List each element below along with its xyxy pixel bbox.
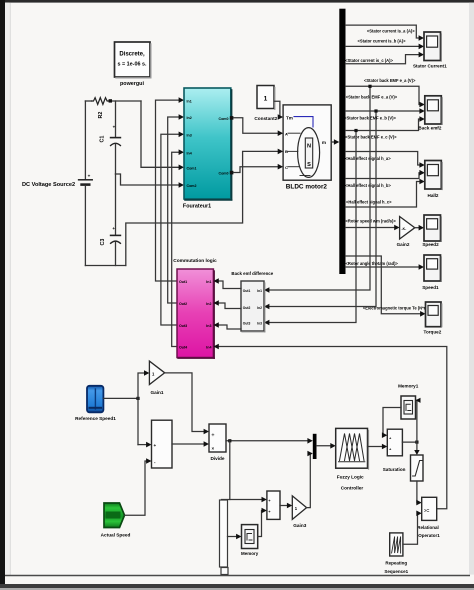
svg-text:Out4: Out4 xyxy=(179,346,187,350)
svg-text:C: C xyxy=(285,165,288,170)
svg-text:BLDC motor2: BLDC motor2 xyxy=(286,184,328,191)
wire gate4 commutation to inverter In4 xyxy=(172,152,180,346)
mux bar xyxy=(313,434,317,459)
wire emf e_b drop to difference block xyxy=(268,111,377,307)
sum subtract block xyxy=(152,420,173,468)
svg-text:>=: >= xyxy=(424,508,430,513)
wire stator back EMF e_b xyxy=(346,110,422,112)
svg-text:Discrete,: Discrete, xyxy=(119,52,145,58)
svg-text:In1: In1 xyxy=(187,99,192,103)
svg-text:In4: In4 xyxy=(187,151,192,155)
wire rotor speed wm xyxy=(346,227,397,229)
wire Memory1 to sum3 xyxy=(383,408,401,436)
wire hall h_a xyxy=(346,152,422,166)
svg-text:<Stator back EMF e_a (V)>: <Stator back EMF e_a (V)> xyxy=(364,78,416,83)
wire stator current is_b xyxy=(346,45,421,47)
svg-text:Gain1: Gain1 xyxy=(150,390,163,395)
back emf difference subsystem xyxy=(241,281,265,332)
wire ref branch xyxy=(138,373,146,445)
BLDC motor2 block xyxy=(283,105,331,180)
bus selector bar xyxy=(339,9,345,274)
svg-text:Com2: Com2 xyxy=(187,184,197,188)
wire hall h_c xyxy=(346,182,422,208)
svg-text:Reference Speed1: Reference Speed1 xyxy=(75,416,116,421)
wire gate3 commutation to inverter In3 xyxy=(161,134,180,325)
wire mux to fuzzy xyxy=(317,445,333,447)
wire divide branch down xyxy=(229,441,231,500)
scope Speed1 xyxy=(424,255,441,281)
wire ref to sum xyxy=(138,444,148,446)
commutation logic subsystem xyxy=(177,269,214,358)
svg-text:Speed1: Speed1 xyxy=(422,285,439,290)
svg-text:C1: C1 xyxy=(100,136,106,143)
wire motor m to bus xyxy=(331,141,335,143)
wire feedback up to Memory1 xyxy=(415,400,418,442)
svg-text:Memory1: Memory1 xyxy=(398,383,419,388)
svg-text:C3: C3 xyxy=(100,239,106,246)
svg-text:<Hall effect signal h_b>: <Hall effect signal h_b> xyxy=(345,183,391,188)
wire stator current is_a xyxy=(346,25,421,38)
svg-text:×: × xyxy=(212,446,215,451)
capacitor C3 branch xyxy=(100,174,120,266)
svg-text:In3: In3 xyxy=(187,134,192,138)
node junction xyxy=(109,99,112,102)
wire rail to node xyxy=(109,100,142,102)
svg-text:Operator1: Operator1 xyxy=(418,533,440,538)
svg-text:-K-: -K- xyxy=(402,227,407,231)
svg-text:Out1: Out1 xyxy=(179,280,187,284)
svg-text:Back emf difference: Back emf difference xyxy=(231,271,273,276)
svg-text:<Rotor speed wm (rad/s)>: <Rotor speed wm (rad/s)> xyxy=(346,219,397,224)
svg-text:Memory: Memory xyxy=(241,551,259,556)
svg-text:DC Voltage Source2: DC Voltage Source2 xyxy=(22,182,75,188)
svg-text:<Rotor angle thetam (rad)>: <Rotor angle thetam (rad)> xyxy=(346,261,399,266)
svg-text:Gain2: Gain2 xyxy=(397,242,410,247)
wire sum to Divide xyxy=(172,443,205,445)
wire Divide to mux xyxy=(226,440,309,442)
gain Gain1 xyxy=(149,361,164,384)
wire stator current is_c xyxy=(346,55,421,64)
svg-text:In3: In3 xyxy=(257,322,262,326)
wire emf e_a drop to difference block xyxy=(268,86,371,290)
wire sum3 out junction xyxy=(402,441,417,443)
powergui block xyxy=(115,42,151,78)
svg-text:N: N xyxy=(307,144,311,150)
svg-text:S: S xyxy=(307,162,311,168)
svg-text:Commutation logic: Commutation logic xyxy=(173,258,217,264)
DC Voltage Source2 xyxy=(79,101,93,266)
svg-text:+: + xyxy=(88,174,91,179)
scope Stator Current1 xyxy=(424,32,441,61)
scope Speed2 xyxy=(424,215,441,241)
wire DC+ down to Com port xyxy=(141,101,180,167)
svg-text:In2: In2 xyxy=(206,302,211,306)
svg-text:1: 1 xyxy=(264,96,268,103)
constant Constant2 xyxy=(257,86,275,110)
wire delay to Memory xyxy=(228,536,238,538)
svg-text:Controller: Controller xyxy=(341,485,364,490)
svg-text:Out3: Out3 xyxy=(243,322,251,326)
wire Reference Speed1 out xyxy=(103,397,138,399)
gain Gain3 xyxy=(292,496,306,520)
wire rotor angle thetam xyxy=(346,266,421,268)
svg-text:Com0: Com0 xyxy=(219,117,229,121)
wire inverter out A xyxy=(233,118,279,133)
wire junction down to saturation xyxy=(416,442,418,451)
svg-text:Out2: Out2 xyxy=(179,302,187,306)
wire repeating sequence to relational xyxy=(403,513,418,544)
svg-text:Fuzzy Logic: Fuzzy Logic xyxy=(337,475,364,480)
wire Actual Speed to sum xyxy=(125,461,148,515)
relational operator block xyxy=(422,497,437,520)
svg-text:m: m xyxy=(322,140,326,145)
saturation block xyxy=(411,455,424,481)
svg-text:powergui: powergui xyxy=(120,81,144,87)
wire neutral to motor B xyxy=(126,151,280,265)
svg-text:+: + xyxy=(154,443,157,448)
gain Gain2 xyxy=(400,217,415,240)
wire inverter out C xyxy=(233,167,279,173)
wire Constant2 to Tm xyxy=(274,101,281,117)
svg-text:<Hall effect signal h_c>: <Hall effect signal h_c> xyxy=(346,200,392,205)
wire Gain2 to Speed2 xyxy=(415,227,421,229)
scope Back emf2 xyxy=(425,96,442,125)
svg-text:Stator Current1: Stator Current1 xyxy=(413,64,447,69)
svg-text:Speed2: Speed2 xyxy=(422,242,439,247)
wire stator back EMF e_a xyxy=(346,86,422,104)
svg-text:Com0: Com0 xyxy=(219,172,229,176)
sum2 block xyxy=(267,491,280,519)
svg-text:<Stator current is_b (A)>: <Stator current is_b (A)> xyxy=(358,39,407,44)
delay tall block xyxy=(220,500,229,575)
svg-text:Tm: Tm xyxy=(286,115,293,120)
svg-text:Back emf2: Back emf2 xyxy=(418,125,441,130)
wire emf diff out2 to commutation in2 xyxy=(217,303,241,309)
svg-text:Saturation: Saturation xyxy=(383,467,406,472)
wire sum2 to Gain3 xyxy=(280,505,289,507)
wire PWM feedback to commutation in4 xyxy=(217,347,447,509)
inverter subsystem Fourateur1 xyxy=(184,88,233,200)
svg-text:Divide: Divide xyxy=(210,456,224,461)
svg-text:Hall2: Hall2 xyxy=(428,193,439,198)
svg-text:Out2: Out2 xyxy=(243,306,251,310)
source Reference Speed1 xyxy=(87,386,103,413)
svg-text:<Stator current is_a (A)>: <Stator current is_a (A)> xyxy=(367,29,415,34)
wire gate2 commutation to inverter In2 xyxy=(168,117,180,303)
svg-text:<Hall effect signal h_a>: <Hall effect signal h_a> xyxy=(345,156,391,161)
svg-text:Gain3: Gain3 xyxy=(293,523,306,528)
svg-text:In1: In1 xyxy=(206,280,211,284)
svg-text:Com1: Com1 xyxy=(187,167,197,171)
wire top rail xyxy=(85,100,91,102)
svg-text:Fourateur1: Fourateur1 xyxy=(183,204,211,210)
wire emf diff out3 to commutation in3 xyxy=(217,325,241,329)
repeating sequence block xyxy=(390,533,403,556)
svg-text:Relational: Relational xyxy=(417,525,439,530)
svg-text:Sequence1: Sequence1 xyxy=(384,569,408,574)
wire gate1 commutation to inverter In1 xyxy=(156,100,181,281)
wire Gain3 to mux xyxy=(307,454,311,508)
svg-text:s = 1e-06 s.: s = 1e-06 s. xyxy=(118,62,147,68)
wire bottom rail xyxy=(85,265,125,267)
svg-text:Out3: Out3 xyxy=(179,324,187,328)
wire Gain1 to Divide xyxy=(165,373,206,432)
svg-text:+: + xyxy=(113,125,116,130)
svg-text:In1: In1 xyxy=(257,289,262,293)
sum3 block xyxy=(387,429,402,456)
scope Hall2 xyxy=(425,161,442,190)
wire electromagnetic torque xyxy=(346,256,422,314)
svg-text:In2: In2 xyxy=(187,116,192,120)
svg-text:<Stator current is_c (A)>: <Stator current is_c (A)> xyxy=(345,58,393,63)
svg-text:÷: ÷ xyxy=(212,433,215,439)
wire emf diff out1 to commutation in1 xyxy=(217,281,241,289)
wire stator back EMF e_c xyxy=(346,119,422,131)
resistor R2 xyxy=(92,98,109,119)
capacitor C1 branch xyxy=(100,101,121,174)
fuzzy logic controller block xyxy=(336,428,369,469)
svg-text:R2: R2 xyxy=(98,112,104,119)
wire Memory to sum2 xyxy=(258,511,264,537)
svg-text:In3: In3 xyxy=(206,324,211,328)
svg-text:In2: In2 xyxy=(257,306,262,310)
wire mid node to Com2 port xyxy=(116,174,181,185)
svg-text:Torque2: Torque2 xyxy=(424,329,442,334)
divide block xyxy=(209,424,226,452)
svg-text:In4: In4 xyxy=(206,346,211,350)
wire to sum2 xyxy=(222,499,264,501)
scope Torque2 xyxy=(426,302,442,327)
wire emf e_c drop to difference block xyxy=(268,131,357,323)
svg-text:+: + xyxy=(112,226,115,231)
svg-text:<Stator back EMF e_c (V)>: <Stator back EMF e_c (V)> xyxy=(345,135,397,140)
wire fuzzy to sum3 xyxy=(368,446,384,448)
svg-text:Constant2: Constant2 xyxy=(254,116,277,121)
svg-text:A: A xyxy=(285,131,288,136)
wire saturation to relational xyxy=(417,481,418,503)
memory Memory xyxy=(242,525,258,549)
svg-text:Actual Speed: Actual Speed xyxy=(101,532,131,537)
wire hall h_b xyxy=(346,173,422,179)
svg-text:Out1: Out1 xyxy=(243,289,251,293)
svg-text:Repeating: Repeating xyxy=(385,560,407,565)
source Actual Speed xyxy=(104,503,125,528)
memory Memory1 xyxy=(401,396,416,419)
svg-text:<Stator back EMF e_a (V)>: <Stator back EMF e_a (V)> xyxy=(346,94,398,99)
